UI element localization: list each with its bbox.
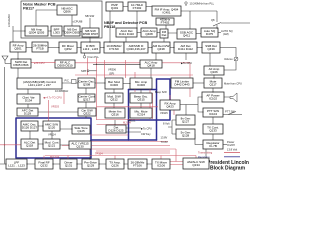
carrier oscillator Q308 (78, 78, 95, 88)
svg-text:D134: D134 (25, 99, 33, 103)
svg-text:L121 .. L123: L121 .. L123 (8, 164, 25, 168)
NB switch A5 (82, 28, 99, 37)
wire IF top row connectors (123, 6, 152, 8)
svg-text:Transmitting: Transmitting (198, 151, 213, 155)
svg-text:Q132: Q132 (40, 164, 48, 168)
wire SP8 to bal mod riser (89, 70, 97, 72)
svg-text:Q401: Q401 (111, 6, 119, 10)
svg-text:Q439: Q439 (207, 47, 215, 51)
svg-text:D475: D475 (206, 32, 214, 36)
mic mute IC314 (130, 108, 152, 118)
svg-text:Q106: Q106 (210, 70, 218, 74)
NB AGC amp U-A1 (57, 5, 77, 15)
balanced modulator IC306 (105, 78, 123, 89)
wire FM limiter to mute (193, 82, 204, 84)
TX amp Q126 (106, 159, 124, 169)
svg-text:D129: D129 (24, 112, 32, 116)
pre-driver Q129 (82, 159, 99, 169)
AFC detector D129 (17, 108, 38, 116)
AM/ALC switch Q134 (183, 158, 209, 169)
svg-text:Power: Power (227, 140, 234, 144)
red TX line mid-lower horizontals (97, 107, 159, 120)
wire RX amp to AF power (180, 97, 203, 115)
FM detector B5 (160, 29, 168, 38)
TX control Q133 (203, 124, 223, 134)
8v regulator Q127 (176, 115, 195, 125)
svg-text:Q317: Q317 (83, 98, 91, 102)
bandpass filter BPF L303 (51, 26, 62, 36)
svg-text:Q118: Q118 (26, 144, 33, 148)
svg-text:13.8 Volt: 13.8 Volt (227, 148, 237, 152)
svg-text:D411 D412: D411 D412 (178, 47, 193, 51)
node 10.240MHz from PLL (185, 2, 187, 4)
wire 10.240MHz from PLL to Q8 switch (181, 4, 217, 29)
svg-text:IC314: IC314 (137, 113, 145, 117)
svg-text:◀+4.7v TO CPU: ◀+4.7v TO CPU (43, 95, 62, 99)
wire modulator column links (114, 84, 141, 109)
svg-text:Q312: Q312 (110, 98, 118, 102)
wire Q8 node to CPU right edge (221, 22, 250, 24)
speaker SP1 (230, 93, 237, 102)
svg-text:Volume: Volume (224, 57, 233, 61)
red TX line SWR det to CPU (31, 61, 55, 63)
svg-text:Q117: Q117 (209, 83, 216, 87)
svg-text:LOCAL/DX: LOCAL/DX (7, 14, 11, 27)
svg-text:Q506: Q506 (63, 10, 71, 14)
wire NB S/W down to IF BPF (89, 37, 91, 42)
svg-text:D504 D505: D504 D505 (64, 31, 80, 35)
svg-text:Q133: Q133 (209, 129, 217, 133)
AM/SSB IF amp C6 (124, 42, 148, 53)
side tone oscillator Q125 (72, 125, 90, 134)
crystal filter FT402 (128, 2, 146, 11)
NB amp A2 (25, 26, 48, 36)
svg-text:Q125: Q125 (77, 129, 85, 133)
svg-text:D411 D410: D411 D410 (119, 32, 134, 36)
SWR detector D505 (11, 59, 31, 68)
beep oscillator Q315 (130, 93, 152, 103)
svg-text:TX 8V: TX 8V (161, 140, 168, 144)
svg-text:MIC104: MIC104 (50, 155, 60, 159)
svg-text:Det: Det (162, 33, 167, 37)
svg-text:L101,L107 + L57: L101,L107 + L57 (28, 83, 51, 87)
PTT SW symbol (223, 112, 242, 115)
svg-text:MJ104: MJ104 (123, 120, 131, 124)
svg-text:Q128: Q128 (182, 134, 190, 138)
navy RX-path riser at Beep Osc (128, 90, 130, 141)
svg-text:VR114: VR114 (48, 133, 56, 137)
svg-text:(AM): (AM) (223, 32, 229, 36)
wire NB S/W label stub (89, 18, 91, 28)
wire navy top to Det box (114, 120, 116, 125)
svg-text:D126 D127: D126 D127 (22, 126, 38, 130)
meter amp Q316 (105, 108, 125, 118)
svg-text:Q126: Q126 (111, 164, 119, 168)
svg-text:Beep S/W: Beep S/W (155, 90, 167, 94)
svg-text:Q423: Q423 (166, 105, 174, 109)
svg-text:D506 D507: D506 D507 (83, 32, 99, 36)
wire PLL section internal links (30, 126, 72, 145)
svg-text:Q504 Q505: Q504 Q505 (29, 31, 45, 35)
AGC detector D411 (116, 28, 137, 37)
low pass filter LPF (6, 159, 27, 169)
final RF amp Q132 (35, 159, 53, 169)
wire NB chain links (48, 30, 82, 33)
wire FM IF down to AGC Det (136, 11, 138, 28)
crystal filter 455kHz FT402 (156, 18, 174, 25)
wire From-PLL circle stub (84, 53, 86, 55)
svg-text:D509 D510: D509 D510 (57, 64, 73, 68)
svg-text:PB117: PB117 (23, 6, 34, 10)
wire ALC amp to mic amp (150, 68, 152, 78)
wire Det box to CPU stubs (126, 128, 141, 132)
svg-text:CW Key: CW Key (141, 132, 151, 136)
svg-text:PB118: PB118 (104, 25, 115, 29)
svg-text:IC401: IC401 (162, 11, 170, 15)
wire mixer rail to ALC amp (93, 63, 140, 65)
red TX drops to final row (44, 156, 196, 160)
svg-text:D126 D125: D126 D125 (108, 129, 124, 133)
AM detector D411 D412 (174, 42, 197, 53)
svg-text:●To CPU: ●To CPU (34, 61, 45, 65)
wire 8v/5v feed column (168, 120, 176, 134)
svg-text:NB S/W: NB S/W (85, 14, 95, 18)
svg-text:IC106: IC106 (157, 164, 165, 168)
svg-text:10.240MHz from PLL: 10.240MHz from PLL (190, 2, 215, 6)
svg-text:VR306: VR306 (108, 67, 116, 71)
FM IF amp IC401 (152, 6, 181, 16)
enclosure Noise Masker PCB (21, 1, 102, 38)
svg-text:On/Off: On/Off (227, 143, 235, 147)
svg-text:Q316: Q316 (111, 113, 119, 117)
carrier switch Q322 (78, 108, 96, 116)
svg-text:Q501: Q501 (14, 47, 22, 51)
svg-text:Q308: Q308 (83, 83, 91, 87)
wire ALC amp down to pre-driver (89, 149, 91, 159)
svg-text:VR115: VR115 (160, 111, 168, 115)
svg-text:▶To CPU: ▶To CPU (181, 61, 192, 65)
wire AGC Det to AM/SSB IF (125, 37, 127, 42)
AF amp Q106 (204, 66, 224, 75)
svg-text:P/C: P/C (65, 79, 69, 83)
navy RX-path top link to RX Amp (129, 79, 171, 120)
red TX riser near balanced modulator (96, 58, 98, 120)
wire volume pot to AF amp (220, 48, 236, 71)
RF amp Q501 (10, 42, 26, 52)
svg-text:Q418: Q418 (147, 64, 155, 68)
svg-text:AUTO SQ: AUTO SQ (221, 29, 233, 33)
driver Q131 (60, 159, 77, 169)
svg-text:13.8V: 13.8V (161, 135, 168, 139)
red TX riser SP8 (87, 58, 89, 75)
IF bandpass filter L113 (81, 42, 100, 53)
svg-text:Q134: Q134 (192, 163, 200, 167)
wire AM/ALC switch up to regulator (205, 149, 207, 158)
svg-text:FT106: FT106 (133, 164, 142, 168)
navy RX-path link Mic Amp to Beep riser (129, 89, 157, 91)
svg-text:◁CPU98: ◁CPU98 (72, 20, 83, 24)
svg-text:D442 D443: D442 D443 (174, 83, 190, 87)
TX bandpass filter FT106 (128, 159, 147, 169)
node From PLL (83, 56, 86, 59)
wire AF amp to mute to AF power to speaker (213, 75, 230, 97)
RX amp Q423 (160, 100, 180, 110)
wire 5v gen to regulator (195, 134, 203, 145)
wire regulator to power labels (223, 144, 227, 146)
wire antenna feed down to LPF (4, 67, 6, 164)
svg-text:PTT SW: PTT SW (225, 109, 235, 113)
svg-text:IC306: IC306 (110, 83, 118, 87)
red TX bus above final row (45, 155, 196, 157)
wire control to carrier osc via crystal (62, 82, 78, 84)
wire NB AGC loop (36, 10, 72, 26)
navy RX-path riser at Mic Amp right (156, 79, 158, 140)
svg-text:Q315: Q315 (137, 98, 145, 102)
svg-text:Mute from CPU: Mute from CPU (224, 82, 242, 86)
red TX riser right of beep (150, 88, 190, 119)
wire SWR Det down to mode control (17, 68, 19, 78)
detector D126 D125 (106, 125, 126, 133)
wire TX bottom row connectors (0, 163, 152, 165)
svg-text:Q408: Q408 (145, 32, 153, 36)
svg-text:Q120: Q120 (48, 126, 56, 130)
svg-text:IC-7B: IC-7B (209, 144, 217, 148)
svg-text:SP8: SP8 (81, 69, 86, 73)
wire PTT chain and regulator column (212, 117, 214, 140)
red TX bus PLL rows (62, 125, 176, 154)
svg-text:D505 D506: D505 D506 (13, 63, 29, 67)
PTT switch IC104 (203, 108, 223, 117)
junction arrow dots black (5, 27, 217, 164)
ALC amp Q130 (69, 141, 91, 149)
AGC amp Q408 (141, 28, 157, 37)
5v regulator Q128 (176, 129, 195, 139)
svg-text:Q322: Q322 (83, 112, 91, 116)
antenna symbol (2, 56, 11, 64)
mic amp IC306 (130, 78, 152, 89)
svg-text:Q121: Q121 (48, 144, 56, 148)
svg-text:IC102: IC102 (209, 97, 217, 101)
wire RX row C connectors (26, 47, 202, 49)
crystal X1 (72, 80, 77, 84)
TX mixer IC106 (152, 159, 170, 169)
mode control E1 (17, 78, 62, 89)
red TX risers above modulator row (105, 60, 136, 92)
svg-text:FT402: FT402 (161, 21, 170, 25)
wire SSB det down to AF amp (209, 53, 211, 66)
svg-text:Block Diagram: Block Diagram (210, 166, 246, 171)
svg-text:IC306: IC306 (137, 83, 145, 87)
wire S-meter box stubs (164, 24, 166, 42)
navy RX-path riser right of Side Tone (91, 139, 157, 141)
RX bandpass filter FT1B (32, 42, 48, 52)
svg-text:▶To CPU: ▶To CPU (141, 127, 152, 131)
red TX riser below clarifier (49, 92, 65, 121)
red TX line RF ALC across to FM limiter (75, 63, 190, 78)
svg-text:TP104: TP104 (95, 151, 103, 155)
svg-text:8 Volt: 8 Volt (163, 122, 170, 126)
red TX line into ALC det from left (0, 144, 21, 146)
svg-text:IC104: IC104 (209, 112, 217, 116)
junction arrow dots red (4, 62, 56, 146)
svg-text:Q452: Q452 (64, 47, 72, 51)
svg-text:Q127: Q127 (182, 120, 190, 124)
FM limiter D442 (171, 78, 193, 88)
svg-text:10.695MHz: 10.695MHz (55, 89, 69, 93)
wire carrier osc to balanced modulator (95, 82, 105, 84)
svg-text:L113 , L115: L113 , L115 (83, 47, 99, 51)
clarifier varactor D134 (17, 94, 40, 104)
SSB AGC Q411 (177, 29, 196, 39)
wire AGC row connectors (137, 33, 221, 61)
svg-text:FT402: FT402 (133, 6, 142, 10)
svg-text:Q129: Q129 (87, 164, 95, 168)
ALC detector Q118 (21, 139, 38, 149)
regulator IC-7B (203, 140, 223, 149)
ALC amp Q418 (140, 60, 162, 68)
node SP8 jack (87, 70, 89, 72)
AMC oscillator D126 (21, 121, 38, 131)
svg-text:Q8: Q8 (211, 18, 215, 22)
red TX bus mid horizontal (75, 74, 193, 76)
SSB detector Q439 (202, 42, 220, 53)
red TX riser into RX amp area (169, 95, 171, 100)
svg-text:L303: L303 (53, 31, 60, 35)
wire carrier switch to navy bus (85, 116, 87, 118)
svg-text:Q130: Q130 (76, 145, 84, 149)
modulator driver Q312 (105, 93, 123, 103)
AM detector driver Q438 (152, 42, 170, 53)
svg-text:(SP): (SP) (109, 71, 114, 75)
navy RX-path enclosure around PLL section (16, 118, 91, 158)
wire PMP down to 10.695 filter (109, 11, 111, 42)
modulation control Q121 (43, 139, 60, 149)
red TX links TX mixer to AM/ALC switch (170, 149, 183, 165)
svg-text:Q131: Q131 (65, 164, 73, 168)
wire AM det to CPU stub (185, 53, 187, 60)
crystal filter FT1SD (104, 42, 124, 53)
PMP amp B1 (106, 2, 123, 11)
RF ALC D509 (55, 60, 75, 68)
carrier control Q317 (78, 94, 95, 102)
auto squelch D475 (201, 28, 218, 37)
Q8 switch lever (213, 23, 221, 27)
svg-text:VR303: VR303 (51, 105, 59, 109)
svg-text:Q438: Q438 (157, 47, 165, 51)
RF mixer Q452 (59, 42, 77, 53)
wire carrier chain verticals (28, 88, 86, 108)
svg-text:FT1SD: FT1SD (109, 47, 119, 51)
NB detector A4 (64, 26, 80, 36)
AF power amp IC102 (202, 92, 224, 102)
svg-text:From PLL: From PLL (88, 55, 100, 59)
wire LOCAL/DX feed to NB Amp (13, 26, 25, 42)
svg-text:Q411: Q411 (183, 34, 190, 38)
svg-text:FT1B: FT1B (36, 47, 43, 51)
mute switch Q117 (204, 78, 222, 88)
wire RF Amp to SWR Det (17, 52, 19, 59)
wire AFC Det to carrier switch (38, 111, 78, 113)
svg-text:Q430,436,437: Q430,436,437 (126, 47, 145, 51)
AMC switch Q120 (43, 121, 60, 131)
